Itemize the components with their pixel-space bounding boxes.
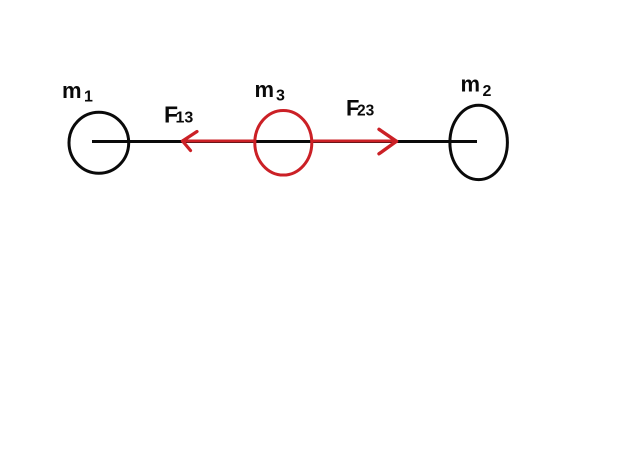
svg-text:1: 1 — [84, 89, 93, 106]
svg-text:23: 23 — [357, 103, 375, 120]
svg-text:m: m — [62, 78, 82, 103]
svg-text:2: 2 — [483, 83, 492, 100]
svg-text:13: 13 — [176, 110, 194, 127]
svg-text:m: m — [255, 77, 275, 102]
svg-text:m: m — [461, 72, 481, 97]
svg-text:3: 3 — [276, 88, 285, 105]
